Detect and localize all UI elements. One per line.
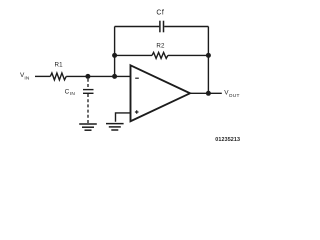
- svg-text:Cf: Cf: [156, 9, 164, 16]
- svg-text:IN: IN: [24, 75, 30, 81]
- svg-text:R1: R1: [55, 61, 64, 68]
- svg-text:R2: R2: [156, 43, 165, 50]
- svg-text:IN: IN: [70, 91, 76, 97]
- svg-text:OUT: OUT: [229, 93, 240, 99]
- svg-text:01235213: 01235213: [215, 137, 240, 143]
